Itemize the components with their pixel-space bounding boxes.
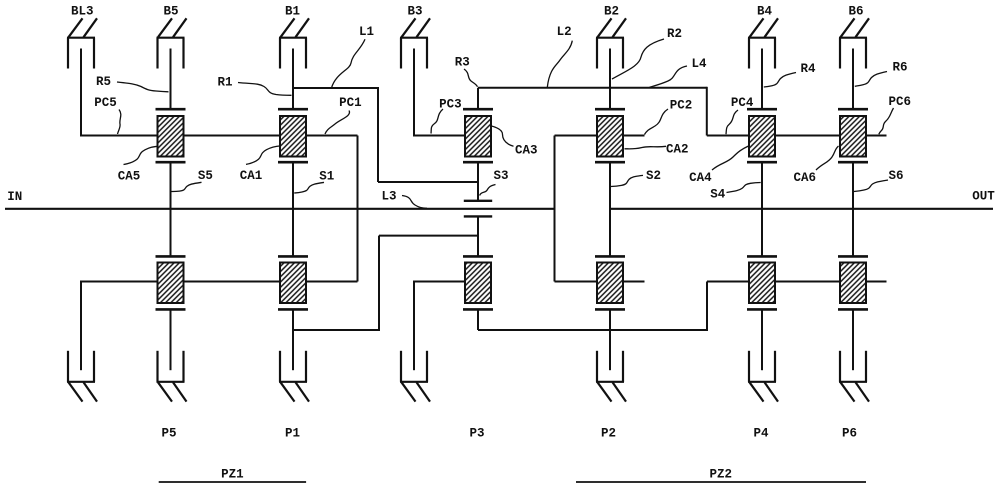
svg-text:R5: R5 bbox=[96, 75, 111, 89]
wire CA4-CA6 link upper bbox=[775, 135, 840, 137]
svg-text:IN: IN bbox=[7, 190, 22, 204]
wire PC1 lower stub bbox=[306, 281, 358, 283]
wire PC1 upper stub bbox=[306, 135, 358, 137]
leader S2 bbox=[611, 175, 643, 186]
ground bracket below B3 bbox=[400, 282, 430, 402]
node S3 upper tee bar bbox=[464, 200, 492, 202]
svg-text:CA1: CA1 bbox=[240, 169, 263, 183]
svg-text:P2: P2 bbox=[601, 426, 616, 440]
gearset P2 upper element bbox=[595, 109, 625, 162]
wire PC2 lower left bbox=[555, 281, 598, 283]
gearset P1 upper element bbox=[278, 109, 308, 162]
leader CA4 bbox=[712, 146, 749, 170]
svg-text:PC5: PC5 bbox=[94, 96, 117, 110]
wire main output shaft OUT bbox=[610, 208, 993, 210]
gearset P1 lower element bbox=[278, 256, 308, 309]
svg-text:PC3: PC3 bbox=[439, 97, 462, 111]
gearset P6 lower element bbox=[838, 256, 868, 309]
wire PC2 vertical bbox=[554, 136, 556, 282]
leader PC2 bbox=[645, 109, 669, 135]
wire PC3 upper (B3 to P3) bbox=[413, 135, 465, 137]
svg-text:R4: R4 bbox=[800, 62, 816, 76]
gearset P5 lower element bbox=[156, 256, 186, 309]
svg-text:S4: S4 bbox=[710, 187, 726, 201]
svg-text:P5: P5 bbox=[161, 426, 176, 440]
leader R5 bbox=[117, 82, 169, 92]
line PZ2 bracket bbox=[576, 481, 866, 483]
ground bracket below P1 bbox=[279, 309, 309, 401]
leader L3 bbox=[402, 196, 427, 209]
svg-text:PZ1: PZ1 bbox=[221, 467, 244, 481]
leader S4 bbox=[727, 183, 761, 193]
ground bracket below P2 bbox=[596, 309, 626, 401]
wire S2 shaft bbox=[609, 162, 611, 256]
wire PC5 lower (ground to P5) bbox=[80, 281, 158, 283]
leader CA2 bbox=[625, 146, 667, 149]
leader CA3 bbox=[492, 126, 514, 146]
wire S1 shaft bbox=[292, 162, 294, 256]
svg-text:L1: L1 bbox=[359, 25, 374, 39]
wire CA5-CA1 link lower bbox=[184, 281, 281, 283]
svg-text:S5: S5 bbox=[198, 169, 213, 183]
brake B4 bbox=[748, 18, 778, 109]
wire L2-L4 (R3 to B2 to PC4) bbox=[478, 87, 749, 136]
wire PC5 upper (BL3 to P5) bbox=[80, 135, 158, 137]
node S3 lower tee bar bbox=[464, 215, 492, 217]
leader S1 bbox=[294, 182, 324, 193]
leader CA5 bbox=[124, 146, 158, 164]
ground bracket below P5 bbox=[157, 309, 187, 401]
wire S6 shaft bbox=[852, 162, 854, 256]
svg-text:BL3: BL3 bbox=[71, 4, 94, 18]
wire S5 shaft bbox=[170, 162, 172, 256]
gearset P3 lower element bbox=[463, 256, 493, 309]
svg-text:CA2: CA2 bbox=[666, 143, 689, 157]
wire L1 lower mirror bbox=[293, 236, 478, 331]
svg-text:B6: B6 bbox=[848, 4, 863, 18]
leader R3 bbox=[464, 69, 478, 87]
svg-text:S2: S2 bbox=[646, 169, 661, 183]
leader CA1 bbox=[246, 146, 280, 165]
leader R2 bbox=[612, 39, 664, 79]
brake B6 bbox=[839, 18, 869, 109]
line PZ1 bracket bbox=[159, 481, 306, 483]
svg-text:L4: L4 bbox=[691, 57, 707, 71]
wire main input shaft IN (L3) bbox=[5, 208, 555, 210]
wire PC3 lower bbox=[413, 281, 465, 283]
ground bracket below P4 bbox=[748, 309, 778, 401]
brake B2 bbox=[596, 18, 626, 109]
wire PC2 upper right stub bbox=[623, 135, 645, 137]
svg-text:PC6: PC6 bbox=[888, 95, 911, 109]
gearset P3 upper element bbox=[463, 109, 493, 162]
svg-text:L3: L3 bbox=[381, 189, 396, 203]
svg-text:B1: B1 bbox=[285, 4, 300, 18]
svg-text:S1: S1 bbox=[319, 169, 334, 183]
leader R4 bbox=[764, 73, 796, 88]
wire S3 upper shaft bbox=[477, 162, 479, 201]
ground bracket below BL3 bbox=[67, 282, 97, 402]
wire L1 (B1 to S3) bbox=[293, 87, 478, 182]
wire PC6 upper stub bbox=[866, 135, 887, 137]
brake B3 bbox=[400, 18, 430, 135]
gearset P5 upper element bbox=[156, 109, 186, 162]
leader L2 bbox=[547, 41, 572, 88]
leader R6 bbox=[855, 72, 887, 87]
svg-text:PC4: PC4 bbox=[731, 96, 754, 110]
leader S5 bbox=[171, 182, 201, 191]
leader L1 bbox=[332, 39, 366, 88]
gearset P2 lower element bbox=[595, 256, 625, 309]
leader S3 bbox=[480, 185, 496, 196]
leader PC1 bbox=[325, 111, 350, 135]
svg-text:CA6: CA6 bbox=[793, 171, 816, 185]
wire S3 lower shaft bbox=[477, 216, 479, 256]
svg-text:PC2: PC2 bbox=[670, 98, 693, 112]
svg-text:R3: R3 bbox=[455, 56, 470, 70]
ground bracket below P6 bbox=[839, 309, 869, 401]
svg-text:CA3: CA3 bbox=[515, 143, 538, 157]
leader R1 bbox=[238, 83, 292, 96]
brake B5 bbox=[157, 18, 187, 109]
wire P3 lower shaft to bottom wire bbox=[477, 309, 479, 330]
svg-text:CA4: CA4 bbox=[689, 171, 712, 185]
svg-text:CA5: CA5 bbox=[118, 169, 141, 183]
svg-text:B2: B2 bbox=[604, 4, 619, 18]
leader S6 bbox=[854, 180, 888, 192]
svg-text:B3: B3 bbox=[407, 4, 422, 18]
wire L2-L4 lower mirror bbox=[478, 282, 749, 332]
wire CA5-CA1 link upper bbox=[184, 135, 281, 137]
svg-text:P3: P3 bbox=[469, 426, 484, 440]
gearset P4 lower element bbox=[747, 256, 777, 309]
wire PC6 lower stub bbox=[866, 281, 887, 283]
wire R3 riser bbox=[477, 88, 479, 109]
svg-text:S3: S3 bbox=[493, 169, 508, 183]
svg-text:P1: P1 bbox=[285, 426, 300, 440]
svg-text:B5: B5 bbox=[163, 4, 178, 18]
wire PC2 lower right stub bbox=[623, 281, 645, 283]
brake B1 bbox=[279, 18, 309, 109]
leader L4 bbox=[650, 66, 688, 87]
svg-text:B4: B4 bbox=[757, 4, 773, 18]
svg-text:R2: R2 bbox=[667, 27, 682, 41]
svg-text:S6: S6 bbox=[888, 169, 903, 183]
svg-text:L2: L2 bbox=[557, 25, 572, 39]
svg-text:R1: R1 bbox=[217, 75, 232, 89]
gearset P4 upper element bbox=[747, 109, 777, 162]
svg-text:PC1: PC1 bbox=[339, 96, 362, 110]
leader PC5 bbox=[118, 110, 121, 135]
leader PC4 bbox=[726, 110, 738, 134]
wire S4 shaft bbox=[761, 162, 763, 256]
wire PC1 vertical bbox=[357, 136, 359, 282]
leader PC6 bbox=[879, 108, 894, 134]
svg-text:P4: P4 bbox=[753, 426, 769, 440]
gearset P6 upper element bbox=[838, 109, 868, 162]
brake BL3 bbox=[67, 18, 97, 135]
wire PC2 upper left bbox=[555, 135, 598, 137]
svg-text:OUT: OUT bbox=[972, 189, 995, 203]
leader PC3 bbox=[431, 109, 443, 134]
leader CA6 bbox=[816, 146, 839, 170]
svg-text:P6: P6 bbox=[842, 426, 857, 440]
svg-text:R6: R6 bbox=[892, 60, 907, 74]
svg-text:PZ2: PZ2 bbox=[709, 467, 732, 481]
wire CA4-CA6 link lower bbox=[775, 281, 840, 283]
